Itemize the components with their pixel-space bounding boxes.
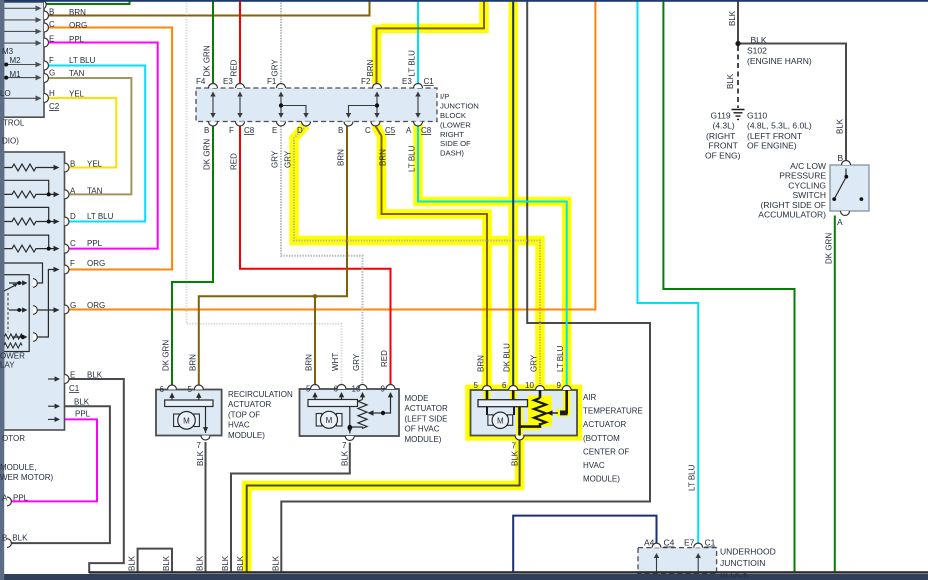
- svg-text:PRESSURE: PRESSURE: [779, 171, 826, 181]
- wire BLK from S102 to A/C switch pin B: [740, 44, 846, 161]
- svg-text:ORG: ORG: [87, 301, 105, 310]
- svg-text:C: C: [70, 239, 76, 248]
- arrowheads to pins B A D C: [54, 165, 60, 252]
- I/P junction block: [196, 88, 437, 122]
- svg-text:RECIRCULATION: RECIRCULATION: [228, 390, 293, 399]
- wire BLK jumper loop at ground bus: [138, 549, 172, 573]
- highlight band BRN circuit (below block): [376, 125, 488, 385]
- svg-text:A: A: [2, 494, 8, 503]
- wire LT BLU highlighted I/P junction A to air temp pin 9: [418, 126, 567, 386]
- labels underhood junction block: [644, 538, 776, 580]
- svg-text:(BOTTOM: (BOTTOM: [583, 434, 620, 443]
- wire DK BLU from ground bus to underhood junction A4: [513, 516, 656, 573]
- svg-text:B: B: [70, 160, 75, 169]
- wire BLK recirculation pin 7 to ground bus: [205, 442, 207, 573]
- svg-text:BLK: BLK: [196, 450, 205, 466]
- svg-text:DK GRN: DK GRN: [203, 45, 212, 76]
- svg-text:BRN: BRN: [379, 149, 388, 166]
- dot M2 row: [4, 63, 8, 67]
- svg-text:6: 6: [334, 385, 339, 394]
- wire BRN from block1 pin B up off page: [48, 0, 370, 16]
- svg-text:WER MOTOR): WER MOTOR): [0, 473, 54, 482]
- svg-text:F: F: [49, 56, 54, 65]
- svg-text:MODULE): MODULE): [583, 475, 620, 484]
- svg-text:LT BLU: LT BLU: [87, 212, 114, 221]
- svg-text:BLK: BLK: [12, 534, 28, 543]
- wire BRN highlighted I/P junction C to air temp pin 5: [376, 126, 488, 386]
- svg-text:BRN: BRN: [366, 59, 375, 76]
- svg-text:GRY: GRY: [284, 150, 293, 168]
- block U1 pin arcs A B C E F G H: [44, 1, 46, 9]
- svg-text:10: 10: [525, 381, 534, 390]
- svg-text:JUNCTIOIN: JUNCTIOIN: [720, 558, 765, 568]
- svg-text:GRY: GRY: [530, 354, 539, 372]
- highlight band GRY circuit: [294, 125, 540, 385]
- labels block U2: [0, 160, 114, 419]
- svg-text:MODULE,: MODULE,: [0, 463, 36, 472]
- svg-text:BLK: BLK: [751, 35, 767, 45]
- relay coil: [4, 334, 23, 348]
- svg-text:TAN: TAN: [87, 187, 103, 196]
- svg-text:RIGHT: RIGHT: [440, 130, 464, 139]
- svg-text:E3: E3: [402, 77, 412, 86]
- svg-text:F: F: [229, 126, 234, 135]
- svg-text:(LEFT FRONT: (LEFT FRONT: [747, 131, 802, 141]
- wire GRY from top to I/P junction F1: [280, 0, 282, 84]
- svg-text:C1: C1: [705, 538, 716, 548]
- svg-text:BLK: BLK: [511, 450, 520, 466]
- wire BRN highlighted from top into I/P junction F2: [377, 0, 485, 84]
- wire ORG block2 pin G up off page top: [69, 0, 595, 310]
- svg-text:C5: C5: [385, 126, 396, 135]
- svg-text:SWITCH: SWITCH: [792, 190, 826, 200]
- resistor module block U2 (blower resistors) left: [1, 152, 65, 430]
- svg-text:BRN: BRN: [477, 355, 486, 372]
- svg-text:B: B: [204, 126, 209, 135]
- svg-text:M: M: [183, 416, 190, 425]
- I/P junction top pin arcs F4 E3 F1 F2 E3: [209, 84, 218, 89]
- resistor R1 row B: [4, 164, 55, 252]
- svg-text:C1: C1: [424, 77, 435, 86]
- svg-text:YEL: YEL: [69, 90, 85, 99]
- svg-text:F: F: [70, 259, 75, 268]
- svg-text:HVAC: HVAC: [583, 461, 605, 470]
- block U2 pin arcs B A D C F G E: [65, 163, 70, 172]
- svg-text:C2: C2: [49, 102, 60, 111]
- labels actuators: [160, 381, 643, 484]
- air temp actuator pin arcs 5 6 10 9 7: [483, 386, 492, 391]
- air temperature actuator M3: [471, 390, 578, 437]
- svg-text:BLOCK: BLOCK: [720, 570, 749, 580]
- svg-text:PPL: PPL: [69, 35, 85, 44]
- svg-text:AIR: AIR: [583, 393, 597, 402]
- svg-text:DK GRN: DK GRN: [203, 139, 212, 170]
- svg-text:G119: G119: [711, 111, 731, 121]
- svg-text:BLK: BLK: [836, 118, 845, 134]
- recirculation actuator pin arcs 6 5 7: [168, 385, 177, 390]
- wire TAN block1 pin G to block2 pin A: [48, 78, 131, 194]
- svg-text:F2: F2: [361, 77, 371, 86]
- wire BLK highlighted air temp pin 7 to ground bus: [247, 440, 520, 573]
- rotated wire labels: [128, 10, 845, 571]
- jumper taps: [4, 180, 49, 248]
- svg-text:E: E: [70, 371, 75, 380]
- svg-text:RED: RED: [380, 350, 389, 367]
- svg-text:C: C: [49, 20, 55, 29]
- svg-text:BLK: BLK: [236, 555, 245, 571]
- A/C switch pin arcs B A: [842, 161, 851, 166]
- svg-text:F1: F1: [267, 77, 277, 86]
- junction dots on resistor taps: [47, 192, 51, 196]
- svg-text:ACTUATOR: ACTUATOR: [228, 400, 271, 409]
- svg-text:ORG: ORG: [87, 259, 105, 268]
- svg-text:GRY: GRY: [271, 59, 280, 77]
- svg-text:BLK: BLK: [87, 371, 103, 380]
- svg-text:LT BLU: LT BLU: [556, 345, 565, 372]
- relay internal contact arcs: [33, 279, 37, 342]
- svg-text:D: D: [70, 212, 76, 221]
- svg-text:B: B: [2, 534, 7, 543]
- svg-text:PPL: PPL: [13, 494, 29, 503]
- wire to pin F: [37, 270, 55, 338]
- svg-text:CENTER OF: CENTER OF: [583, 447, 629, 456]
- wire BLK from top to splice S102: [737, 0, 739, 41]
- svg-text:MODULE): MODULE): [228, 431, 265, 440]
- svg-text:BLOCK: BLOCK: [440, 111, 467, 120]
- motor M: [174, 414, 180, 427]
- svg-text:C8: C8: [244, 126, 255, 135]
- bottom band: [0, 574, 928, 580]
- wire LT BLU block1 pin F to block2 pin D: [48, 66, 145, 222]
- svg-text:BLK: BLK: [162, 555, 171, 571]
- wire BLK block2 pin E C1 to ground bus: [69, 379, 124, 573]
- svg-text:BRN: BRN: [188, 354, 197, 371]
- A/C low pressure cycling switch S1: [830, 165, 869, 211]
- splice dot S102: [735, 41, 740, 46]
- relay K1 inside block U2: [1, 263, 54, 352]
- underhood junction pin arcs A4 E7: [652, 543, 661, 548]
- svg-text:(LEFT SIDE: (LEFT SIDE: [405, 414, 448, 423]
- svg-text:10: 10: [352, 385, 361, 394]
- svg-text:LT BLU: LT BLU: [408, 145, 417, 172]
- highlight band DK BLU circuit: [508, 0, 518, 385]
- motor bar: [165, 400, 213, 407]
- svg-text:DK BLU: DK BLU: [503, 343, 512, 372]
- resistor R2 vertical: [358, 400, 367, 429]
- wire LT BLU from top to underhood junction E7: [638, 0, 699, 543]
- svg-text:OF ENG): OF ENG): [705, 151, 741, 161]
- svg-text:A4: A4: [644, 538, 655, 548]
- svg-text:(4.8L, 5.3L, 6.0L): (4.8L, 5.3L, 6.0L): [747, 121, 812, 131]
- wire BLK block2 lower pin to module pin B: [11, 406, 110, 543]
- svg-text:ACTUATOR: ACTUATOR: [405, 404, 448, 413]
- svg-text:OF HVAC: OF HVAC: [405, 425, 440, 434]
- svg-text:BRN: BRN: [69, 8, 86, 17]
- svg-text:SIDE OF: SIDE OF: [440, 139, 471, 148]
- wire DK BLU highlighted from top to air temp pin 6: [512, 0, 514, 386]
- mode actuator M2: [300, 389, 400, 436]
- svg-text:G110: G110: [747, 111, 767, 121]
- svg-text:M1: M1: [10, 70, 22, 79]
- svg-text:MODULE): MODULE): [405, 435, 442, 444]
- relay contact rows: [9, 283, 26, 337]
- I/P junction bottom pin arcs B F E D B C A: [209, 122, 218, 127]
- svg-text:MODE: MODE: [405, 394, 429, 403]
- highlight of internal air temp actuator circuit: [487, 391, 567, 440]
- svg-text:5: 5: [474, 381, 479, 390]
- svg-text:TAN: TAN: [69, 69, 85, 78]
- svg-text:(TOP OF: (TOP OF: [228, 410, 260, 419]
- svg-text:WHT: WHT: [331, 353, 340, 371]
- wiper arm and terminal pad: [547, 412, 558, 414]
- svg-text:(ENGINE HARN): (ENGINE HARN): [747, 56, 812, 66]
- svg-text:A/C LOW: A/C LOW: [790, 161, 826, 171]
- wire BRN I/P junction B to recirculation pin 5 and mode pin 5: [199, 126, 347, 386]
- wire DK GRN stub from connector block top pin A: [44, 0, 130, 4]
- svg-text:7: 7: [197, 441, 202, 450]
- svg-text:DK GRN: DK GRN: [162, 340, 171, 371]
- svg-text:(RIGHT SIDE OF: (RIGHT SIDE OF: [761, 200, 827, 210]
- svg-text:E: E: [49, 35, 54, 44]
- svg-text:A: A: [70, 187, 76, 196]
- svg-text:C1: C1: [69, 384, 80, 393]
- page frame: top border: [0, 0, 928, 2]
- labels block U1: [0, 8, 96, 146]
- wire GRY I/P junction E to mode actuator pin 10: [281, 126, 363, 386]
- module pin arcs A and B bottom left: [7, 497, 11, 506]
- svg-text:DASH): DASH): [440, 149, 464, 158]
- svg-text:PPL: PPL: [75, 410, 91, 419]
- left page band: [0, 0, 4, 580]
- motor M: [316, 414, 322, 427]
- svg-text:I/P: I/P: [440, 92, 449, 101]
- wire BLK mode pin 7 to ground bus: [231, 443, 350, 574]
- wire to pin G: [37, 309, 55, 311]
- labels I/P junction block: [196, 77, 479, 158]
- svg-text:6: 6: [160, 385, 165, 394]
- svg-text:BLK: BLK: [221, 555, 230, 571]
- svg-text:E: E: [272, 126, 277, 135]
- svg-text:ACTUATOR: ACTUATOR: [583, 420, 626, 429]
- svg-text:OWER: OWER: [0, 352, 25, 361]
- svg-text:D: D: [297, 126, 303, 135]
- svg-text:M: M: [326, 416, 333, 425]
- highlight frame around air temperature actuator: [468, 388, 580, 439]
- svg-text:HVAC: HVAC: [228, 421, 250, 430]
- ground bus line: [89, 571, 928, 573]
- svg-text:9: 9: [381, 385, 386, 394]
- svg-text:TEMPERATURE: TEMPERATURE: [583, 407, 643, 416]
- wire GRY highlighted I/P junction D to air temp pin 10: [294, 126, 540, 386]
- relay feed wire: [4, 263, 43, 283]
- svg-text:(4.3L): (4.3L): [713, 121, 735, 131]
- relay linkage dashed: [7, 293, 9, 332]
- highlight band BRN circuit (top): [247, 0, 567, 573]
- svg-text:7: 7: [512, 442, 517, 451]
- svg-text:(RIGHT: (RIGHT: [706, 131, 735, 141]
- svg-text:C: C: [365, 126, 371, 135]
- wire DK GRN I/P junction B to recirculation actuator pin 6: [172, 126, 213, 386]
- svg-text:DIO): DIO): [2, 137, 19, 146]
- svg-text:B: B: [338, 126, 343, 135]
- svg-text:LT BLU: LT BLU: [688, 464, 697, 491]
- wire DK GRN from top to I/P junction F4: [212, 0, 214, 84]
- internal arrows lower pins of U2: [48, 376, 60, 422]
- dot M1 row: [4, 76, 8, 80]
- svg-text:BRN: BRN: [337, 149, 346, 166]
- relay box: [4, 275, 30, 352]
- internal switch arrows of block U1: [4, 6, 42, 102]
- svg-text:PPL: PPL: [87, 239, 103, 248]
- svg-text:LO: LO: [0, 89, 11, 98]
- svg-text:YEL: YEL: [87, 160, 103, 169]
- motor M: [488, 415, 493, 426]
- connector block U1 (A/C control head) top left: [4, 2, 45, 117]
- svg-text:BLK: BLK: [340, 450, 349, 466]
- wire DK GRN from top right to bottom: [663, 0, 794, 573]
- wire DK GRN from A/C switch pin A to bottom: [834, 216, 836, 574]
- svg-text:C8: C8: [421, 126, 432, 135]
- wire RED from top to I/P junction E3: [239, 0, 241, 84]
- svg-text:BLK: BLK: [271, 555, 280, 571]
- svg-text:B: B: [838, 153, 844, 163]
- wire LT BLU from top to I/P junction E3: [417, 0, 419, 84]
- svg-text:M: M: [497, 416, 504, 425]
- recirculation actuator M1: [156, 390, 222, 436]
- svg-text:H: H: [49, 89, 55, 98]
- svg-text:S102: S102: [747, 46, 767, 56]
- wire PPL block1 pin E to block2 pin C: [48, 43, 158, 249]
- svg-text:LAY: LAY: [0, 361, 15, 370]
- svg-text:F4: F4: [196, 77, 206, 86]
- svg-text:FRONT: FRONT: [709, 141, 738, 151]
- svg-text:BLK: BLK: [196, 555, 205, 571]
- highlight band LT BLU circuit: [418, 125, 567, 385]
- junction dot BRN split: [313, 294, 317, 298]
- svg-text:ACCUMULATOR): ACCUMULATOR): [758, 210, 826, 220]
- svg-text:RED: RED: [230, 59, 239, 76]
- wire BLK dashed from S102 to ground G119/G110: [737, 46, 739, 108]
- svg-text:BLK: BLK: [128, 555, 137, 571]
- svg-text:BLK: BLK: [726, 73, 735, 89]
- svg-text:9: 9: [557, 381, 562, 390]
- svg-text:5: 5: [306, 385, 311, 394]
- wire BLK from top down right and to ground bus: [281, 0, 650, 573]
- svg-text:M2: M2: [10, 56, 22, 65]
- labels module bottom left: [0, 434, 54, 543]
- svg-text:A: A: [406, 126, 412, 135]
- motor bar: [308, 400, 358, 407]
- svg-text:CYCLING: CYCLING: [788, 180, 826, 190]
- svg-text:GRY: GRY: [352, 353, 361, 371]
- motor hanger lines: [487, 407, 514, 415]
- svg-text:6: 6: [502, 381, 507, 390]
- svg-text:OF ENGINE): OF ENGINE): [747, 141, 797, 151]
- mode actuator pin arcs 5 6 10 9 7: [311, 385, 320, 390]
- svg-text:RED: RED: [230, 153, 239, 170]
- svg-text:C4: C4: [664, 538, 675, 548]
- svg-text:BLK: BLK: [728, 10, 737, 26]
- svg-text:G: G: [70, 301, 76, 310]
- junction dots: [279, 103, 283, 107]
- svg-text:LT BLU: LT BLU: [408, 50, 417, 77]
- svg-text:OTOR: OTOR: [2, 434, 25, 443]
- resistor R3 vertical: [534, 398, 546, 424]
- underhood junction block: [638, 548, 717, 575]
- svg-text:5: 5: [188, 385, 193, 394]
- svg-text:JUNCTION: JUNCTION: [440, 102, 479, 111]
- svg-text:DK GRN: DK GRN: [824, 233, 833, 264]
- svg-text:B: B: [49, 8, 54, 17]
- wire YEL block1 pin H to block2 pin B: [48, 98, 116, 168]
- svg-text:7: 7: [342, 441, 347, 450]
- svg-text:TROL: TROL: [3, 119, 25, 128]
- svg-text:E7: E7: [684, 538, 695, 548]
- wire WHT from top to mode actuator pin 6: [187, 0, 342, 386]
- svg-text:BRN: BRN: [305, 354, 314, 371]
- internal circuit highlight: [487, 391, 567, 437]
- ground symbol G119/G110: [732, 110, 745, 120]
- svg-text:UNDERHOOD: UNDERHOOD: [720, 547, 776, 557]
- svg-text:LT BLU: LT BLU: [69, 56, 96, 65]
- svg-text:(LOWER: (LOWER: [440, 120, 471, 129]
- svg-text:GRY: GRY: [271, 150, 280, 168]
- svg-text:ORG: ORG: [69, 21, 87, 30]
- svg-text:M3: M3: [2, 47, 14, 56]
- svg-text:G: G: [49, 69, 55, 78]
- wire PPL block2 lower pin to module pin A: [11, 419, 97, 501]
- relay switch arm: [1, 285, 17, 293]
- highlight band BLK circuit out of air temp actuator: [247, 440, 520, 573]
- wire RED I/P junction F to mode actuator pin 9: [240, 126, 391, 386]
- svg-text:BLK: BLK: [74, 398, 90, 407]
- labels right side S102 grounds switch: [705, 35, 844, 227]
- svg-text:A: A: [837, 217, 843, 227]
- svg-text:E3: E3: [223, 77, 233, 86]
- motor bar: [478, 400, 528, 407]
- wire ORG block1 pin C to block2 pin F: [48, 28, 172, 270]
